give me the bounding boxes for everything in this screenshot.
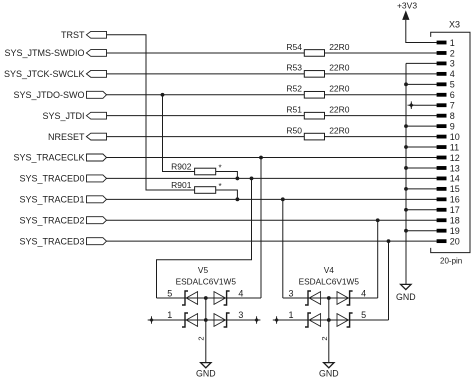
node GND rail junction pin 9: [404, 124, 408, 128]
svg-text:SYS_TRACECLK: SYS_TRACECLK: [13, 153, 84, 163]
node GND rail junction pin 13: [404, 166, 408, 170]
diode V5 D1 (top-left): [182, 291, 198, 305]
svg-text:GND: GND: [396, 292, 416, 302]
svg-text:SYS_TRACED0: SYS_TRACED0: [19, 174, 84, 184]
svg-text:TRST: TRST: [61, 30, 85, 40]
svg-text:4: 4: [450, 69, 455, 79]
connector X3 pin 3: [437, 59, 455, 69]
node GND rail junction pin 11: [404, 145, 408, 149]
node R902-TRACED0 junction: [236, 177, 240, 181]
svg-text:14: 14: [450, 174, 460, 184]
svg-text:15: 15: [450, 184, 460, 194]
svg-text:22R0: 22R0: [329, 125, 350, 135]
connector X3 pin 9: [437, 121, 455, 131]
port SYS_JTCK-SWCLK: [4, 69, 107, 79]
svg-text:3: 3: [450, 59, 455, 69]
wire GND stub pin 15: [406, 188, 437, 190]
wire R902 output to SYS_TRACED0: [216, 172, 238, 179]
svg-text:1: 1: [450, 38, 455, 48]
svg-text:SYS_TRACED1: SYS_TRACED1: [19, 195, 84, 205]
ground GND under connector: [396, 284, 416, 302]
port TRST: [61, 30, 107, 40]
port SYS_TRACECLK: [13, 153, 106, 163]
connector X3 pin 16: [437, 195, 460, 205]
wire SYS_TRACED2 to pin 18: [107, 219, 437, 221]
port SYS_JTMS-SWDIO: [4, 48, 106, 58]
wire R53 to pin 4: [325, 73, 437, 75]
node V5 top center junction: [204, 296, 208, 300]
wire V5 pin 2 to GND: [205, 298, 207, 363]
connector X3 pin 6: [437, 90, 455, 100]
pin 7 no-connect diamond: [408, 101, 416, 109]
power +3V3: [397, 0, 417, 20]
wire R52 input: [107, 94, 305, 96]
svg-text:X3: X3: [449, 20, 460, 30]
svg-text:17: 17: [450, 205, 460, 215]
wire SYS_TRACED1 to pin 16: [107, 198, 437, 200]
svg-text:SYS_JTDO-SWO: SYS_JTDO-SWO: [13, 90, 84, 100]
svg-text:R51: R51: [286, 104, 302, 114]
node JTDO-SWO branch junction: [161, 93, 165, 97]
svg-text:22R0: 22R0: [329, 84, 350, 94]
node V4 bottom center junction: [327, 318, 331, 322]
connector X3 pin 1: [437, 38, 455, 48]
node GND rail junction pin 5: [404, 82, 408, 86]
svg-text:10: 10: [450, 132, 460, 142]
wire R51 input: [107, 115, 305, 117]
wire R54 input: [107, 52, 305, 54]
port SYS_TRACED0: [19, 174, 106, 184]
connector X3 pin 15: [437, 184, 460, 194]
svg-text:+3V3: +3V3: [397, 0, 417, 10]
svg-text:16: 16: [450, 195, 460, 205]
svg-text:R50: R50: [286, 125, 302, 135]
svg-text:ESDALC6V1W5: ESDALC6V1W5: [176, 277, 237, 287]
wire TRST to R901: [107, 35, 195, 190]
svg-text:19: 19: [450, 226, 460, 236]
svg-text:R54: R54: [286, 42, 302, 52]
node TRACED3 branch junction: [387, 239, 391, 243]
svg-text:1: 1: [167, 310, 172, 320]
svg-text:13: 13: [450, 163, 460, 173]
wire R50 to pin 10: [325, 136, 437, 138]
V4 pin 1 no-connect diamond: [273, 316, 281, 324]
svg-text:22R0: 22R0: [329, 63, 350, 73]
wire V5 top row: [157, 297, 262, 299]
connector X3 pin 17: [437, 205, 460, 215]
svg-text:20: 20: [450, 236, 460, 246]
connector X3 pin 4: [437, 69, 455, 79]
svg-text:GND: GND: [319, 368, 339, 378]
resistor R52 22R0: [286, 84, 349, 99]
connector X3 pin 12: [437, 153, 460, 163]
wire SYS_TRACECLK to pin 12: [107, 157, 437, 159]
wire R51 to pin 8: [325, 115, 437, 117]
wire V4 bottom row: [279, 319, 388, 321]
wire GND stub pin 5: [406, 83, 437, 85]
node GND rail junction pin 17: [404, 208, 408, 212]
svg-text:20-pin: 20-pin: [440, 257, 462, 266]
node TRACED0 branch junction: [250, 177, 254, 181]
resistor R53 22R0: [286, 63, 349, 78]
svg-text:5: 5: [167, 289, 172, 299]
svg-text:V5: V5: [198, 265, 209, 275]
svg-text:8: 8: [450, 111, 455, 121]
svg-text:2: 2: [320, 336, 329, 340]
wire R50 input: [107, 136, 305, 138]
svg-text:6: 6: [450, 90, 455, 100]
port SYS_TRACED1: [19, 195, 106, 205]
svg-text:7: 7: [450, 101, 455, 111]
wire TRACED1 to V4 pin 3: [282, 199, 284, 298]
connector X3 pin 5: [437, 80, 455, 90]
svg-text:SYS_JTDI: SYS_JTDI: [42, 111, 84, 121]
svg-text:1: 1: [288, 310, 293, 320]
svg-text:SYS_JTCK-SWCLK: SYS_JTCK-SWCLK: [4, 69, 85, 79]
svg-text:SYS_JTMS-SWDIO: SYS_JTMS-SWDIO: [4, 48, 84, 58]
wire R52 to pin 6: [325, 94, 437, 96]
wire R54 to pin 2: [325, 52, 437, 54]
node TRACED1 branch junction: [281, 197, 285, 201]
connector X3 pin 10: [437, 132, 460, 142]
resistor R902 *: [171, 162, 221, 175]
ground GND under V4: [319, 363, 339, 379]
svg-text:2: 2: [450, 48, 455, 58]
svg-text:4: 4: [238, 289, 243, 299]
connector X3 pin 19: [437, 226, 460, 236]
wire TRACECLK to V5 pin 4: [260, 158, 262, 298]
wire GND stub pin 9: [406, 125, 437, 127]
port SYS_JTDI: [42, 111, 106, 121]
svg-text:GND: GND: [196, 368, 216, 378]
V5 pin 1 no-connect diamond: [148, 316, 156, 324]
connector X3 pin 20: [437, 236, 460, 246]
svg-text:22R0: 22R0: [329, 104, 350, 114]
wire V4 top row: [283, 297, 378, 299]
connector X3 pin 2: [437, 48, 455, 58]
diode V4 D2 (top-right): [337, 291, 353, 305]
port SYS_TRACED3: [19, 236, 106, 246]
connector X3 pin 11: [437, 142, 460, 152]
svg-text:V4: V4: [324, 265, 335, 275]
svg-text:SYS_TRACED3: SYS_TRACED3: [19, 236, 84, 246]
wire SYS_TRACED3 to pin 20: [107, 240, 437, 242]
wire GND stub pin 19: [406, 230, 437, 232]
wire JTDO-SWO branch to R902: [163, 95, 195, 172]
resistor R50 22R0: [286, 125, 349, 140]
svg-text:ESDALC6V1W5: ESDALC6V1W5: [299, 277, 360, 287]
diode V5 D2 (top-right): [214, 291, 230, 305]
svg-text:22R0: 22R0: [329, 42, 350, 52]
svg-text:R52: R52: [286, 84, 302, 94]
wire SYS_TRACED0 to pin 14: [107, 177, 437, 179]
svg-text:NRESET: NRESET: [48, 132, 85, 142]
ground GND under V5: [196, 363, 216, 379]
wire R53 input: [107, 73, 305, 75]
node V4 top center junction: [327, 296, 331, 300]
wire R901 output to SYS_TRACED1: [216, 190, 238, 199]
svg-text:3: 3: [238, 310, 243, 320]
svg-text:5: 5: [361, 310, 366, 320]
node GND rail junction pin 19: [404, 229, 408, 233]
svg-text:2: 2: [196, 336, 205, 340]
svg-text:R902: R902: [171, 162, 192, 172]
V5 pin 3 no-connect diamond: [253, 316, 261, 324]
svg-text:4: 4: [361, 289, 366, 299]
wire TRACED3 to V4 pin 5: [388, 241, 390, 320]
svg-text:R901: R901: [171, 180, 192, 190]
diode V4 D1 (top-left): [305, 291, 321, 305]
svg-text:18: 18: [450, 216, 460, 226]
wire TRACED0 to V5 pin 5: [157, 178, 252, 298]
resistor R51 22R0: [286, 104, 349, 119]
wire +3V3 to pin 1: [406, 20, 437, 43]
connector X3 pin 14: [437, 174, 460, 184]
wire pin 7 stub: [415, 104, 437, 106]
wire V4 pin 2 to GND: [328, 298, 330, 363]
connector X3 pin 7: [437, 101, 455, 111]
node V5 bottom center junction: [204, 318, 208, 322]
ESD array V4 ESDALC6V1W5: [299, 265, 360, 286]
resistor R901 *: [171, 180, 221, 193]
wire TRACED2 to V4 pin 4: [377, 220, 379, 298]
svg-text:12: 12: [450, 153, 460, 163]
svg-text:11: 11: [450, 142, 459, 152]
wire V5 bottom row: [154, 319, 254, 321]
node TRACECLK branch junction: [259, 156, 263, 160]
node R901-TRACED1 junction: [236, 197, 240, 201]
connector X3 pin 18: [437, 216, 460, 226]
connector X3 pin 8: [437, 111, 455, 121]
wire GND rail: [405, 63, 407, 284]
wire GND stub pin 11: [406, 146, 437, 148]
wire GND stub pin 3: [406, 62, 437, 64]
wire GND stub pin 13: [406, 167, 437, 169]
resistor R54 22R0: [286, 42, 349, 56]
diode V5 D4 (bottom-right): [214, 313, 230, 327]
wire GND stub pin 17: [406, 209, 437, 211]
connector X3 pin 13: [437, 163, 460, 173]
diode V4 D4 (bottom-right): [337, 313, 353, 327]
ESD array V5 ESDALC6V1W5: [176, 265, 237, 286]
node GND rail junction pin 15: [404, 187, 408, 191]
svg-text:R53: R53: [286, 63, 302, 73]
svg-text:3: 3: [288, 289, 293, 299]
diode V5 D3 (bottom-left): [182, 313, 198, 327]
port SYS_TRACED2: [19, 215, 106, 225]
node TRACED2 branch junction: [376, 218, 380, 222]
svg-text:5: 5: [450, 80, 455, 90]
connector X3 outline: [431, 32, 470, 252]
port SYS_JTDO-SWO: [13, 90, 106, 100]
port NRESET: [48, 132, 107, 142]
diode V4 D3 (bottom-left): [305, 313, 321, 327]
svg-text:SYS_TRACED2: SYS_TRACED2: [19, 215, 84, 225]
svg-text:9: 9: [450, 121, 455, 131]
